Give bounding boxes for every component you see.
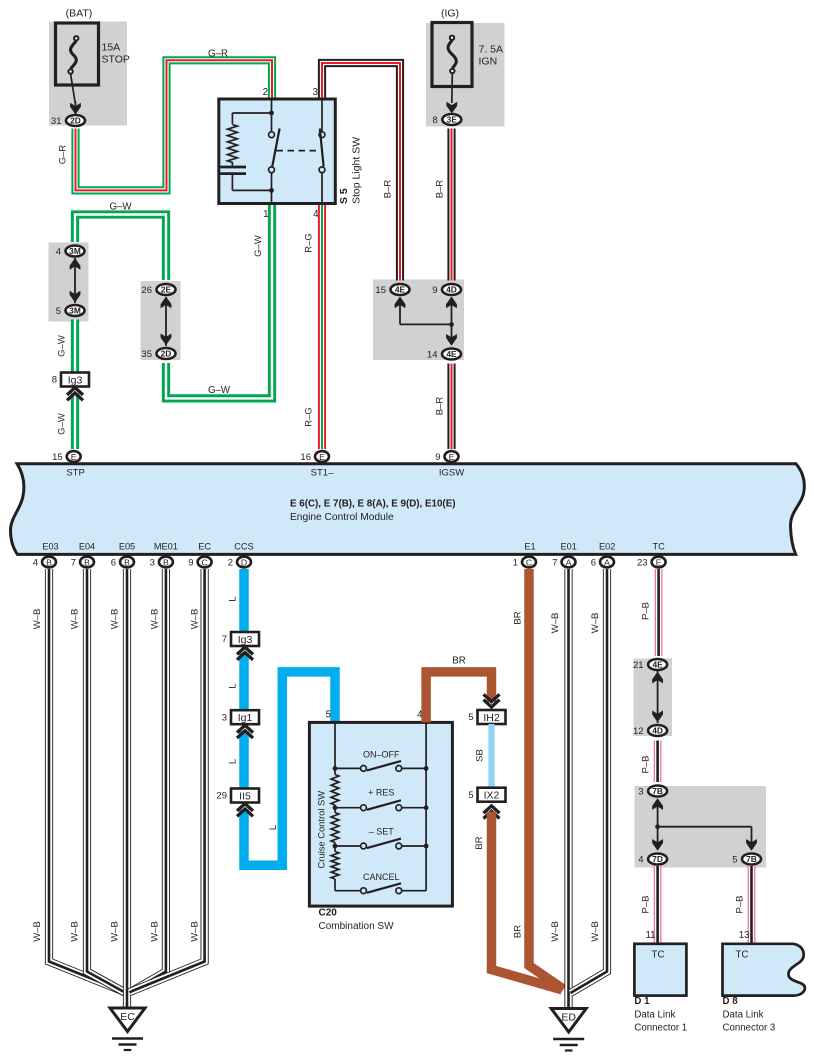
arrow into connector 2D	[70, 103, 81, 115]
svg-text:B–R: B–R	[435, 397, 446, 416]
svg-text:ME01: ME01	[154, 542, 178, 552]
svg-text:ED: ED	[561, 1012, 576, 1024]
ECM top pin ST1-	[300, 451, 329, 463]
S5 dashed link between contacts	[277, 150, 319, 152]
svg-text:26: 26	[141, 285, 152, 296]
svg-text:G–W: G–W	[57, 413, 68, 435]
connector oval 4 7D	[638, 854, 667, 866]
wire B-R from connector 14 4E to ECM IGSW	[447, 364, 455, 450]
svg-text:2D: 2D	[70, 116, 81, 126]
wire G-W from connector 2E to connector 3M	[75, 215, 166, 281]
junction box 5 IX2	[468, 788, 505, 802]
svg-text:5: 5	[326, 710, 331, 721]
svg-text:W–B: W–B	[550, 613, 561, 634]
svg-text:Combination SW: Combination SW	[319, 921, 395, 932]
svg-text:4: 4	[313, 209, 319, 220]
svg-text:E05: E05	[119, 542, 135, 552]
svg-text:9: 9	[432, 285, 437, 296]
svg-text:1: 1	[263, 209, 268, 220]
connector oval 4 3M	[56, 246, 85, 258]
svg-text:Data Link: Data Link	[634, 1009, 675, 1020]
svg-text:W–B: W–B	[69, 921, 80, 942]
Engine Control Module band	[10, 464, 804, 555]
svg-text:31: 31	[51, 116, 62, 127]
svg-text:W–B: W–B	[550, 921, 561, 942]
svg-text:E: E	[319, 452, 325, 462]
C20 resistor 3	[331, 852, 339, 880]
ECM top pin STP	[52, 451, 81, 463]
S5 internal capacitor	[219, 167, 246, 174]
svg-text:P–B: P–B	[735, 896, 746, 914]
S5 internal bottom branch	[232, 175, 271, 190]
svg-text:TC: TC	[736, 950, 749, 961]
svg-text:L: L	[228, 596, 239, 601]
svg-text:Connector 3: Connector 3	[723, 1023, 776, 1034]
svg-text:3M: 3M	[69, 246, 81, 256]
svg-text:C20: C20	[319, 908, 338, 919]
svg-text:W–B: W–B	[149, 609, 160, 630]
svg-text:EC: EC	[120, 1011, 135, 1023]
svg-text:Ig1: Ig1	[238, 712, 253, 724]
svg-text:E: E	[656, 557, 662, 567]
svg-text:A: A	[604, 557, 610, 567]
svg-text:SB: SB	[475, 749, 486, 762]
svg-text:W–B: W–B	[32, 921, 43, 942]
junction connector 4E/4D panel background	[373, 280, 464, 361]
svg-text:4: 4	[33, 558, 38, 569]
C20 switch CANCEL	[335, 883, 426, 893]
connector oval 31 2D	[51, 115, 85, 127]
svg-text:E02: E02	[599, 542, 615, 552]
svg-text:IGSW: IGSW	[439, 468, 464, 479]
data link connector 1 box	[634, 944, 686, 996]
svg-text:Cruise Control SW: Cruise Control SW	[316, 791, 327, 869]
svg-text:W–B: W–B	[32, 609, 43, 630]
wire P-B from 7B to data link connector 3	[748, 866, 756, 944]
junction connector 4E/4D (TC line) panel background	[634, 659, 673, 737]
ground ED	[551, 1009, 586, 1033]
svg-text:W–B: W–B	[69, 609, 80, 630]
svg-text:15: 15	[375, 285, 386, 296]
wire BR from C20 pin 4 to junction IH2	[426, 672, 491, 723]
svg-text:3E: 3E	[447, 115, 458, 125]
svg-text:ST1–: ST1–	[311, 468, 334, 479]
chevrons above IH2	[484, 694, 500, 707]
connector link 3M-3M	[74, 258, 76, 303]
svg-text:5: 5	[468, 712, 473, 723]
junction box 29 II5	[216, 789, 259, 803]
svg-text:1: 1	[513, 558, 518, 569]
wire L from ECM CCS through junctions to combination switch pin 5	[244, 569, 335, 865]
svg-text:G–W: G–W	[109, 202, 132, 213]
svg-text:P–B: P–B	[641, 602, 652, 620]
junction dot on 7B link	[655, 824, 660, 829]
svg-text:E04: E04	[79, 542, 95, 552]
connector oval 21 4E	[633, 659, 667, 671]
junction connector 3M panel background	[49, 243, 89, 322]
connector oval 5 7B	[732, 854, 761, 866]
svg-text:(BAT): (BAT)	[66, 8, 93, 20]
svg-text:+ RES: + RES	[368, 788, 394, 798]
svg-text:B–R: B–R	[383, 180, 394, 199]
svg-text:TC: TC	[652, 950, 665, 961]
svg-text:IH2: IH2	[483, 712, 500, 724]
wire G-W from stop light switch pin 1 to connector 2D	[166, 204, 272, 399]
svg-text:4E: 4E	[446, 349, 457, 359]
svg-text:R–G: R–G	[304, 233, 315, 253]
fuse 15A STOP (BAT)	[56, 23, 99, 103]
wire P-B from 4D to connector 7B	[654, 741, 662, 783]
svg-text:15A: 15A	[102, 42, 121, 54]
wire W-B from ECM EC to ground EC	[131, 569, 205, 992]
svg-text:4E: 4E	[652, 660, 663, 670]
svg-text:6: 6	[111, 558, 116, 569]
connector oval 3 7B	[638, 786, 667, 798]
C20 switch + RES	[335, 800, 426, 810]
svg-text:L: L	[228, 759, 239, 764]
svg-text:Data Link: Data Link	[723, 1009, 764, 1020]
S5 internal resistor	[228, 125, 238, 163]
junction box 3 Ig1	[222, 710, 259, 724]
svg-text:3: 3	[150, 558, 155, 569]
connector oval 26 2E	[141, 284, 175, 296]
svg-text:4: 4	[56, 247, 61, 258]
junction box 5 IH2	[468, 710, 505, 724]
svg-text:C: C	[201, 557, 207, 567]
connector oval 15 4E	[375, 284, 409, 296]
svg-text:B: B	[46, 557, 52, 567]
svg-text:BR: BR	[513, 611, 524, 624]
svg-text:4E: 4E	[395, 285, 406, 295]
svg-text:A: A	[566, 557, 572, 567]
wire P-B from 7D to data link connector 1	[654, 866, 662, 944]
svg-text:14: 14	[427, 350, 438, 361]
svg-text:16: 16	[300, 452, 311, 463]
connector oval 9 4D	[432, 284, 461, 296]
chevrons below Ig1	[237, 725, 253, 738]
svg-text:CANCEL: CANCEL	[363, 872, 400, 882]
svg-text:8: 8	[52, 375, 57, 386]
wire P-B from ECM TC to connector 4E	[655, 569, 663, 656]
S5 center switch contact	[269, 113, 280, 204]
svg-text:Engine Control Module: Engine Control Module	[290, 512, 394, 523]
svg-text:9: 9	[188, 558, 193, 569]
svg-text:7: 7	[71, 558, 76, 569]
svg-text:W–B: W–B	[590, 613, 601, 634]
svg-text:29: 29	[216, 791, 227, 802]
svg-text:11: 11	[645, 930, 655, 941]
combination switch C20 body	[309, 722, 452, 906]
svg-text:5: 5	[468, 790, 473, 801]
connector oval 35 2D	[141, 348, 175, 360]
wire W-B from ECM ME01 to ground EC	[130, 569, 166, 993]
S5 node bottom junction	[269, 188, 274, 193]
svg-text:BR: BR	[452, 656, 465, 667]
svg-text:TC: TC	[652, 542, 665, 552]
svg-text:E01: E01	[561, 542, 577, 552]
svg-text:W–B: W–B	[110, 921, 121, 942]
svg-text:Ig3: Ig3	[68, 374, 83, 386]
wire W-B from ECM E03 to ground EC	[49, 569, 124, 992]
junction connector 7B/7D/7B panel background	[635, 786, 767, 868]
svg-text:7B: 7B	[746, 854, 757, 864]
C20 resistor 2	[331, 813, 339, 843]
svg-text:D: D	[241, 557, 247, 567]
fuse block panel (BAT) background	[49, 22, 127, 126]
stop light switch S5 body	[219, 99, 335, 204]
connector link 4E and 4D to 14 4E	[400, 300, 452, 345]
svg-text:CCS: CCS	[234, 542, 253, 552]
svg-text:8: 8	[433, 115, 438, 126]
arrow into 14 4E	[446, 334, 457, 346]
svg-text:E 6(C), E 7(B), E 8(A), E 9(D): E 6(C), E 7(B), E 8(A), E 9(D), E10(E)	[290, 499, 456, 510]
fuse block panel (IG) background	[426, 23, 505, 127]
C20 resistor 1	[331, 775, 339, 806]
svg-text:W–B: W–B	[190, 609, 201, 630]
svg-text:STOP: STOP	[102, 54, 130, 66]
svg-text:5: 5	[56, 306, 61, 317]
svg-text:35: 35	[141, 349, 152, 360]
arrow into connector 3E	[446, 102, 457, 114]
svg-text:3: 3	[313, 87, 318, 98]
svg-text:R–G: R–G	[304, 407, 315, 427]
wire W-B from ECM E01 to ground ED	[564, 569, 572, 1008]
wire G-W from junction Ig3 to ECM STP	[71, 393, 79, 449]
chevrons below IX2	[484, 806, 500, 819]
S5 internal relay coil branch	[232, 99, 271, 124]
wire G-R from fuse 2D to stop light switch pin 2	[76, 60, 273, 190]
svg-text:4: 4	[638, 855, 643, 866]
svg-text:E: E	[449, 452, 455, 462]
svg-text:G–R: G–R	[208, 49, 228, 60]
svg-text:Ig3: Ig3	[238, 634, 253, 646]
svg-text:7D: 7D	[652, 854, 663, 864]
svg-text:23: 23	[637, 558, 648, 569]
junction dot on 4E/4D link	[449, 322, 454, 327]
C20 switch ON-OFF	[335, 761, 426, 771]
connector link 2E-2D	[165, 297, 167, 346]
wire G-W from connector 3M to junction Ig3 and ECM STP	[71, 320, 79, 374]
svg-text:5: 5	[732, 855, 737, 866]
connector oval 14 4E	[427, 349, 461, 361]
svg-text:L: L	[228, 683, 239, 688]
svg-text:C: C	[526, 557, 532, 567]
svg-text:7: 7	[222, 634, 227, 645]
junction connector 2E/2D panel background	[141, 281, 181, 360]
C20 left bus and resistors	[334, 722, 336, 768]
data link connector 3 box	[723, 944, 805, 996]
svg-text:15: 15	[52, 452, 63, 463]
wire BR from IX2 to ground ED	[492, 812, 563, 990]
wire B-R from stop light switch pin 3 to connector 4E	[322, 63, 400, 281]
wire W-B from ECM E04 to ground EC	[87, 569, 125, 993]
connector oval 8 3E	[433, 114, 462, 126]
fuse 7.5A IGN (IG)	[432, 23, 472, 104]
connector link 4E-4D on TC line	[657, 671, 659, 723]
svg-text:3: 3	[638, 787, 643, 798]
arrow into 5 7B	[746, 839, 757, 851]
svg-text:BR: BR	[474, 836, 485, 849]
svg-text:BR: BR	[513, 925, 524, 938]
svg-text:B: B	[163, 557, 169, 567]
wire W-B from ECM E05 to ground EC	[123, 569, 131, 1008]
svg-text:Stop Light SW: Stop Light SW	[351, 137, 363, 204]
svg-text:E: E	[71, 452, 77, 462]
chevrons below Ig3	[237, 647, 253, 660]
svg-text:W–B: W–B	[590, 921, 601, 942]
svg-text:D 1: D 1	[634, 996, 650, 1007]
connector 7B to 7D/7B link	[658, 801, 752, 850]
svg-text:2: 2	[228, 558, 233, 569]
svg-text:G–R: G–R	[58, 145, 69, 165]
wire B-R from fuse 3E to connector 4D	[447, 129, 455, 281]
svg-text:9: 9	[435, 452, 440, 463]
svg-text:P–B: P–B	[641, 756, 652, 774]
C20 switch - SET	[335, 839, 426, 849]
junction box 7 Ig3	[222, 632, 259, 646]
junction box 8 Ig3 (left)	[52, 373, 89, 387]
svg-text:G–W: G–W	[253, 235, 264, 257]
S5 right switch contact	[319, 99, 325, 204]
wire BR from ECM E1 to ground ED	[529, 569, 564, 989]
svg-text:12: 12	[633, 726, 644, 737]
svg-text:2E: 2E	[161, 285, 172, 295]
svg-text:EC: EC	[198, 542, 211, 552]
wire SB from IH2 to IX2	[488, 724, 494, 788]
svg-text:L: L	[268, 825, 279, 830]
chevrons below Ig3 left	[67, 388, 83, 401]
svg-text:3M: 3M	[69, 306, 81, 316]
svg-text:21: 21	[633, 660, 644, 671]
arrow into 7D	[652, 839, 663, 851]
svg-text:IGN: IGN	[479, 56, 498, 68]
ECM top pin IGSW	[435, 451, 458, 463]
svg-text:6: 6	[591, 558, 596, 569]
svg-text:G–W: G–W	[208, 385, 231, 396]
svg-text:D 8: D 8	[723, 996, 739, 1007]
svg-text:4D: 4D	[446, 285, 457, 295]
svg-text:P–B: P–B	[641, 896, 652, 914]
svg-text:ON–OFF: ON–OFF	[363, 750, 400, 760]
svg-text:W–B: W–B	[110, 609, 121, 630]
svg-text:(IG): (IG)	[441, 8, 459, 20]
svg-text:– SET: – SET	[369, 827, 395, 837]
wire W-B from ECM E02 to ground ED	[571, 569, 608, 993]
svg-text:W–B: W–B	[149, 921, 160, 942]
svg-text:7: 7	[552, 558, 557, 569]
svg-text:E1: E1	[524, 542, 535, 552]
connector oval 5 3M	[56, 305, 85, 317]
svg-text:B–R: B–R	[435, 180, 446, 199]
svg-text:3: 3	[222, 712, 227, 723]
svg-text:E03: E03	[42, 542, 58, 552]
svg-text:STP: STP	[66, 468, 84, 479]
wire R-G from stop light switch pin 4 to ECM ST1-	[318, 204, 326, 450]
svg-text:Connector 1: Connector 1	[634, 1023, 687, 1034]
ground EC	[110, 1008, 145, 1032]
svg-text:7. 5A: 7. 5A	[479, 44, 504, 56]
svg-text:2D: 2D	[161, 349, 172, 359]
svg-text:4D: 4D	[652, 726, 663, 736]
svg-text:S 5: S 5	[338, 188, 350, 204]
S5 node top junction	[269, 111, 274, 116]
svg-text:G–W: G–W	[57, 335, 68, 357]
svg-text:13: 13	[739, 930, 750, 941]
svg-text:B: B	[124, 557, 130, 567]
C20 right bus	[425, 722, 427, 890]
chevrons below II5	[237, 804, 253, 817]
connector oval 12 4D	[633, 725, 667, 737]
svg-text:2: 2	[263, 87, 268, 98]
svg-text:IX2: IX2	[484, 790, 500, 802]
svg-text:B: B	[84, 557, 90, 567]
svg-text:7B: 7B	[652, 786, 663, 796]
svg-text:W–B: W–B	[190, 921, 201, 942]
svg-text:II5: II5	[239, 790, 251, 802]
